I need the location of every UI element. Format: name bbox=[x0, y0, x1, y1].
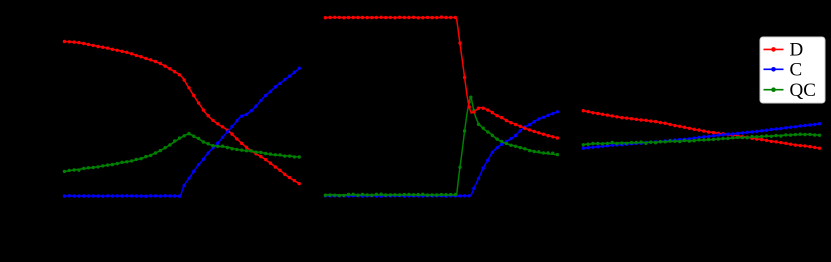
svg-text:QC: QC bbox=[790, 80, 816, 101]
curve C panel 1 line bbox=[65, 69, 300, 197]
curve D panel 3 line bbox=[583, 111, 819, 148]
legend box bbox=[760, 37, 825, 103]
curve C panel 2 markers bbox=[324, 194, 327, 197]
svg-text:C: C bbox=[790, 60, 803, 81]
curve D panel 1 line bbox=[65, 42, 300, 184]
curve QC panel 3 markers bbox=[582, 143, 585, 146]
curve QC panel 2 markers bbox=[324, 194, 327, 197]
curve QC panel 1 markers bbox=[63, 170, 66, 173]
legend entry QC bbox=[764, 89, 784, 91]
svg-text:D: D bbox=[790, 40, 804, 61]
curve C panel 3 line bbox=[583, 124, 819, 148]
curve D panel 1 markers bbox=[63, 40, 66, 43]
legend entry C bbox=[764, 68, 784, 70]
curve D panel 2 markers bbox=[324, 16, 327, 19]
curve C panel 1 markers bbox=[63, 194, 66, 197]
curve C panel 2 line bbox=[325, 112, 557, 196]
curve D panel 2 line bbox=[325, 18, 557, 139]
legend entry D bbox=[764, 48, 784, 50]
curve C panel 3 markers bbox=[582, 147, 585, 150]
curve QC panel 2 line bbox=[325, 98, 557, 195]
curve QC panel 3 line bbox=[583, 134, 819, 144]
curve QC panel 1 line bbox=[65, 134, 300, 171]
curve D panel 3 markers bbox=[582, 109, 585, 112]
